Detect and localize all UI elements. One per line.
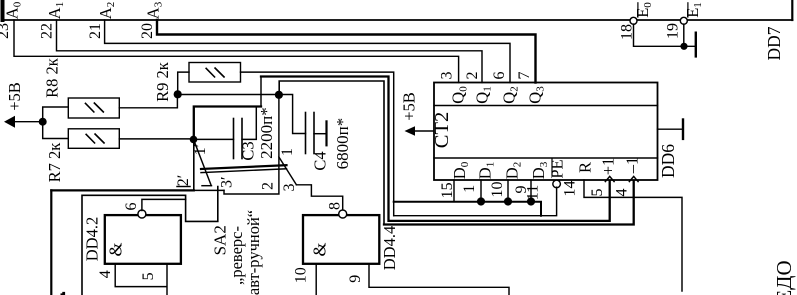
wire PE pin 11 xyxy=(394,187,557,216)
svg-text:6: 6 xyxy=(123,203,140,211)
wire C3 right up to common line xyxy=(242,77,261,140)
tick mark bottom left (cut-off label) xyxy=(61,292,66,295)
svg-text:&: & xyxy=(106,242,126,256)
wire R8 left to +5V xyxy=(43,107,69,122)
svg-text:8: 8 xyxy=(327,202,344,210)
counter CT2 (DD6) body xyxy=(434,83,658,181)
wire from contact 3' down-around to W2 xyxy=(82,187,218,295)
SA2 lever pole2 (1 to 3) xyxy=(279,157,297,185)
resistor R7 power-rating slashes xyxy=(86,134,105,144)
stub D2 pin 10 xyxy=(507,180,509,202)
svg-text:R7 2к: R7 2к xyxy=(45,142,64,183)
svg-text:R9 2к: R9 2к xyxy=(153,61,172,102)
svg-text:+1: +1 xyxy=(599,158,618,176)
wire -1 pin 4 (bold horizontal) xyxy=(384,182,634,225)
pin 18 bubble E0 of DD7 xyxy=(630,17,637,24)
resistor R8 power-rating slashes xyxy=(85,103,104,113)
svg-text:PE: PE xyxy=(548,159,567,178)
wire R pin 14 xyxy=(584,180,682,291)
svg-text:DD6: DD6 xyxy=(658,144,678,178)
svg-text:3′: 3′ xyxy=(219,177,236,189)
wire R9 left to junction xyxy=(178,72,189,94)
stub D0 pin 15 xyxy=(453,180,455,202)
svg-text:7: 7 xyxy=(516,72,533,80)
switch SA2 common 1' junction dot xyxy=(190,136,198,144)
junction dot D2 xyxy=(504,197,512,205)
wire R7 right to SA2 common 1' xyxy=(119,138,193,140)
junction dot pin19 xyxy=(680,43,687,50)
junction dot (dot2) C3-right / SA2 contact 1 xyxy=(275,91,283,99)
svg-text:23: 23 xyxy=(0,23,12,39)
capacitor C3 plates xyxy=(233,119,235,159)
IC DD7 (top band, partially cut by image edge) xyxy=(2,19,793,21)
svg-text:9: 9 xyxy=(347,275,364,283)
svg-text:15: 15 xyxy=(439,182,456,198)
PE pin 11 bubble xyxy=(553,180,561,188)
resistor R7 xyxy=(68,129,119,149)
wire A0 bus: DD7 pin 23 to CT2 pin 3 xyxy=(14,20,459,83)
svg-text:11: 11 xyxy=(525,185,542,200)
SA2 contact 2' stub xyxy=(177,186,190,188)
svg-text:4: 4 xyxy=(97,270,114,278)
wire pins 18,19 common xyxy=(634,24,695,46)
dynamic input arrow -1 pin 4 xyxy=(629,176,638,181)
svg-text:2: 2 xyxy=(260,182,277,190)
svg-text:R8 2к: R8 2к xyxy=(43,57,62,98)
svg-text:DD4.2: DD4.2 xyxy=(82,217,101,261)
resistor R8 xyxy=(68,98,119,118)
svg-text:18: 18 xyxy=(619,24,636,40)
wire A1 bus: DD7 pin 22 to CT2 pin 2 xyxy=(57,20,483,83)
svg-text:22: 22 xyxy=(39,23,56,39)
svg-text:3: 3 xyxy=(439,72,456,80)
svg-text:СТ2: СТ2 xyxy=(431,112,453,148)
DD4.4 input stubs pins 10,9 xyxy=(316,264,509,295)
wire R7 left to +5V dot xyxy=(43,122,69,139)
wire DD4.2 pin 6 to SA2 contact 3-prime net xyxy=(142,199,186,210)
ground bar near DD7 xyxy=(695,33,697,57)
svg-text:19: 19 xyxy=(665,23,682,39)
resistor R9 xyxy=(189,63,241,83)
svg-text:DD4.4: DD4.4 xyxy=(380,226,399,270)
svg-text:21: 21 xyxy=(87,23,104,39)
gate DD4.4 xyxy=(303,215,379,264)
svg-text:R: R xyxy=(576,162,595,173)
stub D3 pin 9 xyxy=(530,180,532,202)
svg-text:6800п*: 6800п* xyxy=(333,118,352,170)
wire R8 right up to dot1 xyxy=(119,94,177,108)
svg-text:5: 5 xyxy=(140,272,157,280)
capacitor C4 plates xyxy=(305,113,307,154)
svg-text:2: 2 xyxy=(464,72,481,80)
svg-text:5: 5 xyxy=(589,189,606,197)
svg-text:+5В: +5В xyxy=(400,92,419,121)
svg-text:14: 14 xyxy=(562,181,579,197)
dynamic input arrow +1 pin 5 xyxy=(605,176,614,181)
svg-text:1′: 1′ xyxy=(192,144,209,156)
SA2 mechanical link (double line) xyxy=(201,165,287,169)
wire common line y=94.8 to C4 left xyxy=(178,95,306,134)
svg-text:+5В: +5В xyxy=(5,82,24,111)
svg-text:ЕДО: ЕДО xyxy=(772,260,796,295)
svg-text:2′: 2′ xyxy=(175,175,192,187)
svg-text:авт-ручной“: авт-ручной“ xyxy=(244,210,263,295)
svg-text:С3: С3 xyxy=(239,141,258,160)
svg-text:10: 10 xyxy=(489,182,506,198)
wire contact 3 to DD4.4 pin 8 xyxy=(296,185,342,211)
+5V stub on CT2 left edge xyxy=(410,130,434,132)
DD4.4 output bubble pin 8 xyxy=(339,210,347,218)
pin 19 bubble E1 of DD7 xyxy=(680,17,687,24)
svg-text:3: 3 xyxy=(281,184,298,192)
wire bold branch to SA2 1' xyxy=(194,107,261,137)
svg-text:2200п*: 2200п* xyxy=(257,107,276,159)
wire C4 right to ground xyxy=(314,133,327,135)
DD4.2 output bubble pin 6 xyxy=(138,210,146,218)
junction dot +5V xyxy=(39,118,47,126)
wire dot2 down to SA2 contact 1 and W1 xyxy=(224,95,279,194)
svg-text:10: 10 xyxy=(293,267,310,283)
svg-text:&: & xyxy=(310,242,330,256)
SA2 contact 3' stub xyxy=(202,185,212,187)
wire A3 bus: DD7 pin 20 to CT2 pin 7 (bold) xyxy=(157,20,536,83)
D-rail (D0..D3 common, bold) xyxy=(394,202,541,216)
svg-text:DD7: DD7 xyxy=(764,26,784,60)
svg-text:1: 1 xyxy=(461,185,478,193)
+5V node arrow (left) xyxy=(8,121,43,123)
stub D1 pin 1 xyxy=(480,180,482,202)
svg-text:6: 6 xyxy=(491,72,508,80)
wire A2 bus: DD7 pin 21 to CT2 pin 6 xyxy=(105,20,510,83)
gate DD4.2 xyxy=(105,215,181,264)
junction dot D1 xyxy=(477,197,485,205)
junction dot R8/R9 (dot1) xyxy=(174,90,182,98)
DD4.2 input stubs pins 4,5 xyxy=(115,264,167,295)
wire W1: SA2 contact 1 net going left and down (bold) xyxy=(51,189,194,191)
SA2 lever pole1 (1' to 3') xyxy=(194,139,212,185)
ground stub on CT2 right edge xyxy=(658,128,684,130)
ground bar at C4 xyxy=(325,121,327,145)
wire R9 right to vertical x394 (net with PE, D-rail) xyxy=(241,72,394,216)
svg-text:20: 20 xyxy=(139,23,156,39)
junction dot D3 xyxy=(527,197,535,205)
wire -1 vertical to SA2 contact 1 net xyxy=(279,81,384,225)
resistor R9 power-rating slashes xyxy=(206,68,225,78)
wire C3 left to 1' dot xyxy=(194,138,234,140)
svg-text:–1: –1 xyxy=(623,157,642,175)
svg-text:4: 4 xyxy=(614,189,631,197)
svg-text:С4: С4 xyxy=(311,151,330,170)
svg-text:1: 1 xyxy=(279,148,296,156)
wire +1 pin 5 (bold) to R7/SA2-1' net xyxy=(261,77,610,221)
